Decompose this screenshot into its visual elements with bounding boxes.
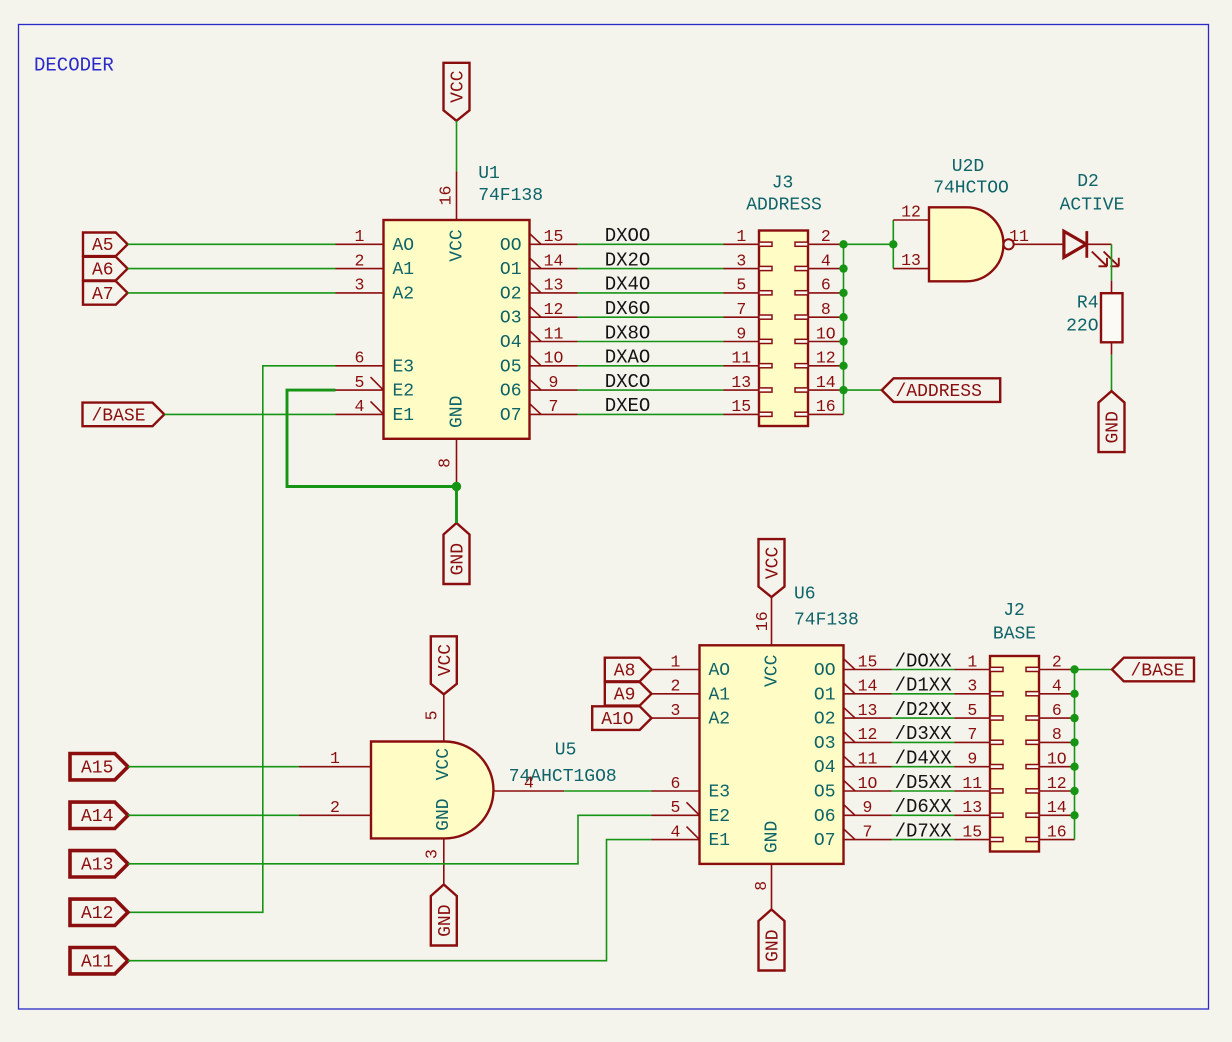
U1 pin 7 O7 — [530, 397, 578, 416]
wire J2 even-pins bus vertical — [1074, 670, 1076, 840]
U1 pin 4 E1 — [336, 397, 384, 416]
global label /BASE (left) — [83, 403, 165, 427]
J3 pin 14 — [808, 373, 844, 392]
svg-text:74HCTOO: 74HCTOO — [933, 178, 1009, 198]
svg-text:9: 9 — [736, 324, 746, 343]
svg-text:/D6XX: /D6XX — [895, 796, 953, 818]
svg-text:/D7XX: /D7XX — [895, 820, 953, 842]
svg-text:1O: 1O — [544, 349, 564, 368]
U6 pin 11 O4 — [844, 750, 892, 769]
svg-text:ADDRESS: ADDRESS — [746, 196, 822, 216]
junction J3 bus row 8 — [839, 313, 847, 321]
svg-text:U2D: U2D — [952, 157, 984, 177]
svg-text:O3: O3 — [814, 734, 836, 754]
svg-text:U6: U6 — [794, 585, 816, 605]
svg-text:A7: A7 — [92, 285, 114, 305]
svg-text:VCC: VCC — [449, 70, 469, 103]
svg-text:11: 11 — [858, 750, 878, 769]
U1 pin 9 O6 — [530, 373, 578, 392]
junction at U1 GND net — [452, 482, 461, 491]
power symbol VCC above U5 — [431, 636, 457, 694]
U5 pin 2 — [299, 798, 371, 817]
U6 pin 8 GND — [752, 864, 772, 910]
gate U5 74AHCT1G08 body — [371, 742, 493, 839]
U1 pin 8 GND — [436, 439, 457, 487]
svg-text:DXAO: DXAO — [605, 347, 651, 369]
wire U1 O5 to J3 - net DXA0 — [578, 365, 724, 367]
J2 pin 9 — [955, 750, 991, 769]
J3 pin 8 — [808, 300, 844, 319]
svg-text:DXCO: DXCO — [605, 371, 651, 393]
U6 pin 10 O5 — [844, 774, 892, 793]
svg-text:3: 3 — [736, 251, 746, 270]
svg-text:7: 7 — [863, 822, 873, 841]
wire U1 O7 to J3 - net DXE0 — [578, 413, 724, 415]
svg-text:4: 4 — [671, 822, 681, 841]
resistor R4 220 — [1101, 281, 1123, 355]
U1 pin 16 VCC — [437, 171, 457, 220]
svg-text:A1: A1 — [709, 685, 731, 705]
svg-text:VCC: VCC — [436, 644, 456, 677]
svg-text:3: 3 — [671, 701, 681, 720]
svg-text:O6: O6 — [500, 382, 522, 402]
svg-text:6: 6 — [1052, 701, 1062, 720]
svg-text:7: 7 — [736, 300, 746, 319]
svg-text:14: 14 — [1047, 798, 1067, 817]
svg-text:12: 12 — [544, 300, 564, 319]
svg-text:12: 12 — [858, 725, 878, 744]
U6 pin 16 VCC — [753, 597, 772, 645]
svg-text:VCC: VCC — [434, 748, 454, 781]
svg-text:2: 2 — [330, 798, 340, 817]
svg-text:7: 7 — [967, 725, 977, 744]
svg-text:E2: E2 — [393, 382, 415, 402]
wire U6 O6 to J2 - net /D6XX — [892, 814, 955, 816]
U6 pin 2 A1 — [652, 677, 700, 696]
svg-text:3: 3 — [355, 276, 365, 295]
U6 pin 9 O6 — [844, 798, 892, 817]
svg-text:A15: A15 — [81, 759, 113, 779]
svg-text:D2: D2 — [1077, 172, 1099, 192]
svg-text:O1: O1 — [500, 260, 522, 280]
svg-text:OO: OO — [500, 236, 522, 256]
svg-text:E3: E3 — [709, 783, 731, 803]
svg-text:DXEO: DXEO — [605, 395, 651, 417]
svg-text:9: 9 — [967, 750, 977, 769]
svg-text:ACTIVE: ACTIVE — [1060, 196, 1125, 216]
svg-text:11: 11 — [731, 349, 751, 368]
svg-text:A13: A13 — [81, 856, 113, 876]
svg-text:O4: O4 — [500, 333, 522, 353]
svg-text:11: 11 — [962, 774, 982, 793]
global label A14 — [70, 802, 128, 828]
svg-text:/ADDRESS: /ADDRESS — [896, 382, 982, 402]
junction J3 bus row 10 — [839, 337, 847, 345]
J2 pin 1 — [955, 652, 991, 671]
U1 pin 11 O4 — [530, 324, 578, 343]
wire U1 E2 to GND tie (thick) — [287, 390, 457, 486]
svg-text:DECODER: DECODER — [34, 55, 114, 77]
svg-text:13: 13 — [901, 251, 921, 270]
svg-text:E3: E3 — [393, 357, 415, 377]
J3 pin 1 — [724, 227, 760, 246]
wire U1 O3 to J3 - net DX60 — [578, 316, 724, 318]
power symbol GND below U6 — [759, 910, 785, 971]
wire U6 O0 to J2 - net /D0XX — [892, 669, 955, 671]
svg-text:GND: GND — [763, 821, 783, 853]
svg-text:O2: O2 — [500, 284, 522, 304]
svg-text:A12: A12 — [81, 904, 113, 924]
U1 pin 6 E3 — [336, 349, 384, 368]
wire U6 O1 to J2 - net /D1XX — [892, 693, 955, 695]
svg-text:GND: GND — [434, 798, 454, 830]
J3 pin 2 — [808, 227, 844, 246]
svg-text:1: 1 — [671, 652, 681, 671]
svg-text:5: 5 — [671, 798, 681, 817]
U1 pin 12 O3 — [530, 300, 578, 319]
global label A11 — [70, 948, 128, 974]
U1 pin 2 A1 — [336, 251, 384, 270]
svg-text:O4: O4 — [814, 758, 836, 778]
wire U1 O6 to J3 - net DXC0 — [578, 389, 724, 391]
svg-text:22O: 22O — [1066, 317, 1098, 337]
J2 pin 13 — [955, 798, 991, 817]
svg-text:8: 8 — [821, 300, 831, 319]
junction J2 bus row 2 — [1070, 665, 1078, 673]
U2D pin 11 output — [1009, 227, 1064, 246]
power symbol GND below U5 — [431, 885, 457, 946]
svg-text:12: 12 — [901, 203, 921, 222]
junction J2 bus row 14 — [1070, 811, 1078, 819]
U1 pin 14 O1 — [530, 251, 578, 270]
U1 pin 15 O0 — [530, 227, 578, 246]
svg-text:AO: AO — [393, 236, 415, 256]
J3 pin 7 — [724, 300, 760, 319]
power symbol GND below U1 — [444, 523, 470, 584]
wire U6 O3 to J2 - net /D3XX — [892, 741, 955, 743]
junction J3 bus row 4 — [839, 264, 847, 272]
svg-text:A9: A9 — [614, 686, 636, 706]
U6 pin 13 O2 — [844, 701, 892, 720]
U1 pin 3 A2 — [336, 276, 384, 295]
wire A11 to U6 E1 — [128, 840, 652, 961]
svg-text:A11: A11 — [81, 953, 113, 973]
svg-text:DX2O: DX2O — [605, 249, 651, 271]
U6 pin 12 O3 — [844, 725, 892, 744]
svg-text:U5: U5 — [555, 741, 577, 761]
wire J3 pin2 to U2D inputs — [844, 243, 894, 245]
svg-text:6: 6 — [671, 774, 681, 793]
svg-text:9: 9 — [549, 373, 559, 392]
svg-text:12: 12 — [816, 349, 836, 368]
svg-text:/BASE: /BASE — [1131, 661, 1185, 681]
svg-text:16: 16 — [1047, 822, 1067, 841]
svg-text:2: 2 — [821, 227, 831, 246]
svg-text:9: 9 — [863, 798, 873, 817]
svg-text:11: 11 — [544, 324, 564, 343]
svg-text:16: 16 — [753, 611, 772, 631]
J2 pin 6 — [1039, 701, 1075, 720]
U6 pin 5 E2 — [652, 798, 700, 817]
junction J2 bus row 10 — [1070, 763, 1078, 771]
svg-text:16: 16 — [816, 397, 836, 416]
J3 pin 12 — [808, 349, 844, 368]
svg-text:6: 6 — [821, 276, 831, 295]
svg-text:6: 6 — [355, 349, 365, 368]
svg-text:A8: A8 — [614, 661, 636, 681]
svg-text:13: 13 — [544, 276, 564, 295]
IC U1 74F138 body — [384, 220, 530, 439]
wire J3 pin14 to /ADDRESS — [844, 389, 882, 391]
U1 pin 1 A0 — [336, 227, 384, 246]
svg-text:16: 16 — [437, 186, 456, 206]
svg-text:OO: OO — [814, 661, 836, 681]
wire U1 O0 to J3 - net DX00 — [578, 243, 724, 245]
svg-text:A6: A6 — [92, 261, 114, 281]
U6 pin 6 E3 — [652, 774, 700, 793]
svg-text:DX4O: DX4O — [605, 274, 651, 296]
svg-text:12: 12 — [1047, 774, 1067, 793]
svg-text:7: 7 — [549, 397, 559, 416]
global label A13 — [70, 851, 128, 877]
wire D2 cathode to R4 — [1111, 244, 1113, 280]
power symbol GND below R4 — [1099, 391, 1125, 452]
global label A5 — [83, 233, 128, 257]
svg-text:O7: O7 — [814, 831, 836, 851]
wire A6 to U1 — [128, 268, 336, 270]
svg-text:1: 1 — [736, 227, 746, 246]
svg-text:8: 8 — [752, 881, 771, 891]
svg-text:E1: E1 — [709, 831, 731, 851]
svg-text:15: 15 — [731, 397, 751, 416]
svg-text:J3: J3 — [772, 173, 794, 193]
wire U6 O4 to J2 - net /D4XX — [892, 766, 955, 768]
svg-text:74F138: 74F138 — [478, 186, 543, 206]
U1 pin 10 O5 — [530, 349, 578, 368]
global label A8 — [605, 658, 652, 682]
svg-text:GND: GND — [436, 904, 456, 936]
svg-text:13: 13 — [858, 701, 878, 720]
IC U6 74F138 body — [700, 645, 844, 864]
global label /BASE (right) — [1112, 658, 1194, 682]
wire U1 pin 8 to GND (thick) — [455, 487, 458, 524]
U5 pin 5 VCC — [423, 694, 444, 741]
svg-text:4: 4 — [355, 397, 365, 416]
svg-text:O5: O5 — [500, 357, 522, 377]
svg-text:O6: O6 — [814, 807, 836, 827]
J3 pin 6 — [808, 276, 844, 295]
power symbol VCC above U6 — [759, 539, 785, 597]
svg-text:14: 14 — [544, 251, 564, 270]
svg-text:A1: A1 — [393, 260, 415, 280]
U6 pin 14 O1 — [844, 677, 892, 696]
connector J2 BASE body — [990, 656, 1039, 852]
svg-text:5: 5 — [967, 701, 977, 720]
global label A15 — [70, 754, 128, 780]
svg-text:3: 3 — [423, 849, 442, 859]
wire U6 O5 to J2 - net /D5XX — [892, 790, 955, 792]
svg-text:DX6O: DX6O — [605, 298, 651, 320]
svg-text:1: 1 — [355, 227, 365, 246]
wire /BASE to U1 E1 — [164, 413, 335, 415]
svg-text:4: 4 — [1052, 677, 1062, 696]
wire A7 to U1 — [128, 292, 336, 294]
svg-text:15: 15 — [962, 822, 982, 841]
U2D pin 13 — [893, 251, 929, 270]
junction J3 bus row 2 — [839, 240, 847, 248]
J3 pin 16 — [808, 397, 844, 416]
wire U6 O2 to J2 - net /D2XX — [892, 717, 955, 719]
svg-text:4: 4 — [524, 774, 534, 793]
svg-text:8: 8 — [1052, 725, 1062, 744]
svg-text:/D5XX: /D5XX — [895, 772, 953, 794]
U5 pin 4 output — [494, 774, 565, 793]
svg-text:BASE: BASE — [993, 625, 1036, 645]
global label A9 — [605, 682, 652, 706]
wire U1 E3 to A12 (long vertical) — [128, 366, 336, 913]
junction J3 bus row 6 — [839, 289, 847, 297]
global label A7 — [83, 281, 128, 305]
svg-text:74F138: 74F138 — [794, 611, 859, 631]
svg-text:/D4XX: /D4XX — [895, 748, 953, 770]
svg-text:5: 5 — [423, 710, 442, 720]
svg-text:A2: A2 — [393, 284, 415, 304]
junction at U2D input tie — [889, 240, 897, 248]
svg-text:1: 1 — [330, 749, 340, 768]
svg-text:1O: 1O — [816, 324, 836, 343]
J2 pin 7 — [955, 725, 991, 744]
J3 pin 11 — [724, 349, 760, 368]
svg-text:/D1XX: /D1XX — [895, 675, 953, 697]
J3 pin 13 — [724, 373, 760, 392]
svg-text:/DOXX: /DOXX — [895, 650, 953, 672]
J3 pin 9 — [724, 324, 760, 343]
svg-text:DXOO: DXOO — [605, 225, 651, 247]
junction J2 bus row 8 — [1070, 738, 1078, 746]
J3 pin 10 — [808, 324, 844, 343]
wire U1 O4 to J3 - net DX80 — [578, 341, 724, 343]
svg-text:1O: 1O — [1047, 750, 1067, 769]
svg-text:GND: GND — [764, 929, 784, 961]
svg-text:A2: A2 — [709, 710, 731, 730]
U6 pin 15 O0 — [844, 652, 892, 671]
svg-text:J2: J2 — [1003, 601, 1025, 621]
svg-text:R4: R4 — [1077, 294, 1099, 314]
J3 pin 15 — [724, 397, 760, 416]
global label A10 — [592, 706, 651, 730]
junction J2 bus row 6 — [1070, 714, 1078, 722]
wire A14 to U5 pin 2 — [128, 814, 299, 816]
U6 pin 4 E1 — [652, 822, 700, 841]
svg-text:2: 2 — [355, 251, 365, 270]
J3 pin 3 — [724, 251, 760, 270]
svg-text:2: 2 — [1052, 652, 1062, 671]
svg-text:A1O: A1O — [601, 710, 633, 730]
global label A12 — [70, 899, 128, 925]
wire U6 O7 to J2 - net /D7XX — [892, 839, 955, 841]
U5 pin 1 — [299, 749, 371, 768]
svg-text:8: 8 — [436, 458, 455, 468]
svg-text:E1: E1 — [393, 406, 415, 426]
svg-text:GND: GND — [449, 543, 469, 575]
wire U5 output to U6 E3 — [564, 790, 651, 792]
J2 pin 12 — [1039, 774, 1075, 793]
wire J2 pin2 to /BASE — [1075, 669, 1113, 671]
svg-text:15: 15 — [858, 652, 878, 671]
J2 pin 16 — [1039, 822, 1075, 841]
svg-text:O5: O5 — [814, 783, 836, 803]
svg-text:GND: GND — [1104, 411, 1124, 443]
svg-text:13: 13 — [962, 798, 982, 817]
wire U2D input tie 12-13 — [892, 220, 894, 269]
J2 pin 4 — [1039, 677, 1075, 696]
J2 pin 3 — [955, 677, 991, 696]
J2 pin 15 — [955, 822, 991, 841]
svg-text:/BASE: /BASE — [92, 406, 146, 426]
svg-text:VCC: VCC — [763, 654, 783, 687]
svg-text:E2: E2 — [709, 807, 731, 827]
J3 pin 4 — [808, 251, 844, 270]
svg-text:A14: A14 — [81, 807, 113, 827]
svg-text:5: 5 — [736, 276, 746, 295]
wire A13 to U6 E2 — [128, 815, 652, 864]
J2 pin 5 — [955, 701, 991, 720]
J2 pin 10 — [1039, 750, 1075, 769]
J2 pin 2 — [1039, 652, 1075, 671]
svg-text:U1: U1 — [478, 164, 500, 184]
svg-text:O3: O3 — [500, 309, 522, 329]
U5 pin 3 GND — [423, 838, 444, 884]
svg-text:1: 1 — [967, 652, 977, 671]
junction J3 bus row 12 — [839, 362, 847, 370]
svg-text:5: 5 — [355, 373, 365, 392]
U6 pin 3 A2 — [652, 701, 700, 720]
gate U2D 74HCT00 body — [929, 207, 1014, 281]
U6 pin 1 A0 — [652, 652, 700, 671]
svg-text:3: 3 — [967, 677, 977, 696]
J2 pin 11 — [955, 774, 991, 793]
svg-text:O1: O1 — [814, 685, 836, 705]
U1 pin 13 O2 — [530, 276, 578, 295]
U2D pin 12 — [893, 203, 929, 222]
wire U1 O2 to J3 - net DX40 — [578, 292, 724, 294]
J2 pin 8 — [1039, 725, 1075, 744]
wire R4 to GND — [1111, 355, 1113, 391]
svg-text:4: 4 — [821, 251, 831, 270]
J3 pin 5 — [724, 276, 760, 295]
connector J3 ADDRESS body — [759, 231, 808, 427]
wire VCC flag to U1 pin 16 — [456, 121, 458, 172]
junction J2 bus row 12 — [1070, 787, 1078, 795]
power symbol VCC above U1 — [444, 63, 470, 121]
junction J2 bus row 4 — [1070, 690, 1078, 698]
wire J3 even-pins bus vertical — [843, 244, 845, 414]
LED D2 — [1064, 231, 1119, 266]
global label /ADDRESS — [882, 378, 1000, 402]
svg-text:A5: A5 — [92, 236, 114, 256]
svg-text:14: 14 — [816, 373, 836, 392]
svg-text:VCC: VCC — [764, 546, 784, 579]
svg-text:13: 13 — [731, 373, 751, 392]
svg-text:15: 15 — [544, 227, 564, 246]
wire A15 to U5 pin 1 — [128, 766, 299, 768]
svg-text:O2: O2 — [814, 710, 836, 730]
svg-text:/D2XX: /D2XX — [895, 699, 953, 721]
svg-text:14: 14 — [858, 677, 878, 696]
svg-text:AO: AO — [709, 661, 731, 681]
svg-text:1O: 1O — [858, 774, 878, 793]
wire U1 O1 to J3 - net DX20 — [578, 268, 724, 270]
